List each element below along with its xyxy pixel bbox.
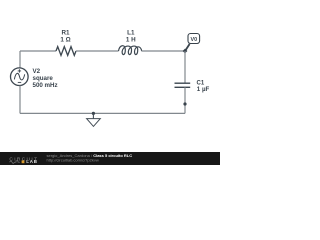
- footer logo LAB: [26, 159, 37, 164]
- L1 label: [127, 29, 135, 36]
- svg-text:V0: V0: [191, 37, 198, 43]
- footer logo orange square: [22, 160, 25, 163]
- node label V0: [188, 34, 200, 44]
- footer CircuitLab logo CIRCUIT: [9, 156, 37, 162]
- svg-text:http://circuitlab.com/c/7p2kvw: http://circuitlab.com/c/7p2kvw: [47, 157, 99, 162]
- wire top-left horizontal: [20, 50, 56, 52]
- junction dot capacitor bottom terminal: [183, 102, 186, 105]
- footer bar: [0, 152, 220, 165]
- footer credit line 1: [47, 153, 133, 158]
- wire right vertical lower: [184, 87, 186, 113]
- wire right vertical upper: [184, 51, 186, 83]
- C1 label: [197, 80, 205, 86]
- V0 flag tail: [185, 44, 189, 51]
- svg-text:LAB: LAB: [26, 159, 37, 164]
- wire left vertical lower: [19, 86, 21, 114]
- footer logo waveform: [10, 161, 20, 164]
- inductor L1: [119, 46, 142, 55]
- L1 value 1 H: [126, 36, 136, 43]
- footer credit line 2 url: [47, 157, 99, 162]
- R1 label: [61, 29, 70, 36]
- V2 label: [33, 68, 41, 75]
- V2 type square: [33, 75, 54, 82]
- wire left vertical upper: [19, 51, 21, 68]
- svg-text:500 mHz: 500 mHz: [33, 82, 58, 89]
- ground: [87, 113, 101, 126]
- svg-text:1 Ω: 1 Ω: [60, 36, 70, 43]
- ground junction dot: [92, 112, 95, 115]
- R1 value 1 Ohm: [60, 36, 70, 43]
- node V0 junction dot: [183, 49, 188, 54]
- capacitor C1: [175, 83, 191, 87]
- svg-text:1 µF: 1 µF: [197, 86, 210, 93]
- resistor R1: [56, 47, 76, 56]
- wire between R1 and L1: [76, 50, 119, 52]
- wire bottom horizontal: [20, 112, 185, 114]
- voltage source V2: [10, 68, 28, 86]
- V2 value 500 mHz: [33, 82, 58, 89]
- C1 value 1 uF: [197, 86, 210, 93]
- svg-text:1 H: 1 H: [126, 36, 136, 43]
- wire top-right horizontal: [142, 50, 186, 52]
